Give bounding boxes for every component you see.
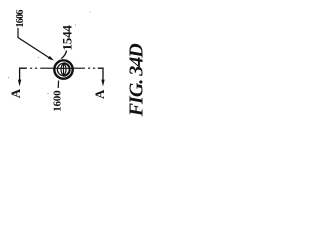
arrowhead of 1606 leader — [48, 56, 54, 61]
svg-text:A: A — [8, 88, 23, 98]
svg-text:1606: 1606 — [15, 10, 26, 28]
horizontal centerline through fastener — [53, 67, 74, 69]
inner ring heavy right arc — [64, 63, 70, 75]
section line right dashes — [74, 67, 95, 69]
section line A-A right bent end with arrow — [98, 68, 103, 80]
center slot ellipse — [61, 64, 66, 74]
svg-text:1600: 1600 — [51, 90, 63, 112]
wire leader from ring bottom to 1600 — [57, 81, 59, 89]
svg-text:1544: 1544 — [60, 25, 75, 51]
speck — [47, 93, 48, 94]
svg-text:A: A — [92, 89, 107, 99]
inner ring of fastener — [57, 63, 69, 75]
svg-text:FIG. 34D: FIG. 34D — [126, 44, 146, 118]
wire leader from 1544 to top of ring — [61, 51, 66, 59]
section line A-A left bent end with arrow — [20, 68, 27, 80]
outer ring of fastener — [54, 60, 72, 78]
speck — [90, 12, 91, 13]
speck — [75, 24, 76, 25]
vertical centerline through slot — [63, 63, 65, 77]
wire leader from 1606 to outer ring — [18, 28, 50, 58]
speck — [38, 57, 39, 58]
speck — [8, 77, 9, 78]
section line left dashes — [30, 67, 53, 69]
